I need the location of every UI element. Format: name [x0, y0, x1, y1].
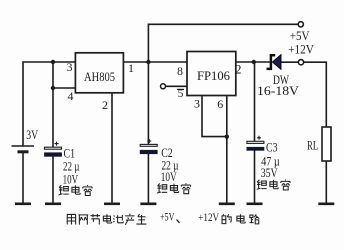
wire node C up to +5V rail	[148, 24, 298, 62]
node B junction	[51, 86, 55, 90]
capacitor C2 22u 10V	[140, 139, 157, 154]
svg-text:35V: 35V	[261, 166, 278, 180]
ground RL	[318, 203, 334, 206]
svg-text:+5V: +5V	[290, 29, 310, 43]
resistor RL	[307, 127, 331, 161]
wire battery negative down	[22, 152, 24, 204]
wire node B down to capacitor C1	[52, 88, 54, 147]
svg-text:C3: C3	[266, 141, 278, 155]
terminal U2 pin 5 open circle	[161, 84, 166, 89]
svg-text:+5V: +5V	[160, 209, 175, 223]
svg-text:8: 8	[177, 64, 183, 78]
ground U2 pin 6	[219, 203, 235, 206]
pin 5 label U2	[177, 88, 184, 100]
svg-text:+12V: +12V	[198, 210, 219, 224]
svg-text:3: 3	[67, 60, 73, 74]
svg-text:6: 6	[217, 97, 223, 111]
svg-text:2: 2	[235, 62, 242, 77]
wire C3 to ground	[254, 150, 256, 203]
wire node A to U1 pin 3	[53, 61, 75, 63]
svg-text:3V: 3V	[26, 127, 38, 142]
svg-text:AH805: AH805	[84, 70, 115, 84]
wire diode to +12V terminal	[281, 61, 298, 63]
caption: using two battery cells to generate +5V and +12V	[67, 209, 259, 224]
wire U1 pin 2 to ground	[111, 93, 113, 204]
svg-text:3: 3	[194, 97, 200, 111]
wire U1 pin 1 to U2 pin 8	[123, 61, 187, 63]
svg-text:22 µ: 22 µ	[63, 159, 80, 173]
zener diode DW 16-18V	[257, 55, 299, 99]
wire node A down to node B	[52, 62, 54, 88]
op-amp U1 AH805	[75, 53, 123, 93]
capacitor C1 22u 10V	[45, 142, 62, 157]
node A junction	[51, 60, 55, 64]
label C2 value	[161, 146, 179, 184]
node E junction	[252, 60, 256, 64]
battery B1 3V	[12, 127, 39, 152]
label C3 tantalum	[257, 180, 290, 190]
svg-text:10V: 10V	[161, 170, 177, 184]
capacitor C3 47u 35V	[247, 136, 264, 151]
wire pin 5 terminal to U2	[166, 85, 188, 87]
wire node E down to capacitor C3	[254, 62, 256, 141]
label C2 tantalum	[157, 183, 190, 193]
wire node B to U1 pin 4	[53, 87, 75, 89]
label C1 tantalum	[59, 185, 92, 195]
svg-text:+12V: +12V	[288, 43, 314, 57]
ground C1	[45, 203, 61, 206]
svg-text:4: 4	[68, 89, 74, 103]
wire battery positive to node A	[23, 62, 53, 146]
wire C2 to ground	[147, 154, 149, 204]
svg-text:10V: 10V	[63, 172, 79, 186]
svg-text:FP106: FP106	[197, 69, 230, 83]
wire RL to ground	[325, 161, 327, 204]
terminal +5V	[298, 22, 303, 27]
terminal +12V	[298, 60, 303, 65]
svg-text:16-18V: 16-18V	[257, 84, 299, 98]
ground C3	[247, 203, 263, 206]
wire U2 pin 3 down and right	[202, 96, 227, 137]
regulator U2 FP106	[187, 52, 236, 96]
svg-text:1: 1	[128, 61, 134, 75]
node D junction	[225, 134, 229, 138]
wire +12V terminal to resistor RL	[304, 62, 327, 127]
ground C2	[140, 203, 156, 206]
label C1 value	[63, 147, 80, 187]
svg-text:RL: RL	[307, 138, 318, 153]
label C3 value	[261, 141, 280, 180]
wire node C down to capacitor C2	[147, 62, 149, 144]
node C junction	[146, 60, 150, 64]
ground U1 pin 2	[104, 203, 120, 206]
ground battery	[15, 203, 31, 206]
wire C1 to ground	[52, 156, 54, 203]
wire U2 pin 6 to ground	[226, 96, 228, 204]
svg-text:2: 2	[102, 98, 108, 112]
wire U2 pin 2 to diode DW	[236, 61, 270, 63]
